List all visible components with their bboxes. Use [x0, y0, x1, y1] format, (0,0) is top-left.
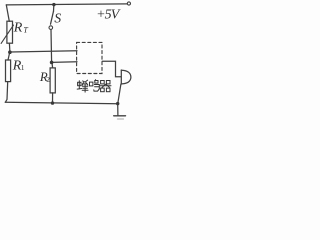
- char ming 鸣: [90, 80, 100, 91]
- wire RT bottom to node A: [8, 43, 11, 52]
- wire R2 bottom to bottom rail: [52, 93, 54, 103]
- junction dot node B: [50, 61, 54, 65]
- char qi 器: [100, 81, 111, 92]
- ground bar 2 faint: [117, 118, 123, 120]
- wire buzzer to bottom rail: [118, 84, 121, 103]
- switch S contact circle: [49, 26, 53, 30]
- switch S lever: [51, 11, 54, 24]
- buzzer sounder dome: [121, 70, 131, 84]
- wire mid rail node A to buzzer box: [10, 51, 77, 52]
- wire left drop to thermistor: [6, 5, 9, 22]
- svg-text:T: T: [23, 25, 28, 34]
- thermistor RT diagonal: [1, 25, 13, 43]
- wire buzzer box to buzzer: [102, 61, 121, 77]
- char feng 蜂: [77, 80, 88, 92]
- ground stem: [117, 104, 119, 116]
- junction dot R2 bottom: [51, 101, 54, 104]
- wire node B to R2: [51, 62, 54, 68]
- wire top rail +5V: [6, 4, 127, 5]
- wire switch to node B: [50, 30, 53, 63]
- svg-text:2: 2: [46, 75, 50, 84]
- wire R1 bottom to bottom rail: [5, 82, 7, 103]
- svg-text:R: R: [13, 21, 23, 36]
- potentiometer R2 body: [50, 68, 55, 93]
- label buzzer text 蜂鸣器 (drawn): [77, 80, 111, 92]
- wire node A to R1: [8, 52, 10, 60]
- svg-text:+5V: +5V: [96, 8, 121, 23]
- wire bottom rail: [5, 102, 118, 103]
- buzzer sounder flat side: [120, 70, 122, 84]
- resistor R1 body: [6, 60, 11, 82]
- thermistor RT body: [7, 21, 13, 43]
- terminal +5V circle: [127, 2, 130, 5]
- ground bar: [114, 115, 126, 117]
- wire switch stub: [53, 6, 55, 12]
- buzzer module dashed box: [77, 42, 102, 73]
- junction dot switch top: [52, 3, 55, 6]
- junction dot buzzer ground: [116, 102, 119, 105]
- svg-text:S: S: [54, 11, 61, 26]
- wire node B to buzzer box: [52, 61, 77, 64]
- junction dot node A: [8, 50, 12, 54]
- svg-text:1: 1: [21, 63, 25, 72]
